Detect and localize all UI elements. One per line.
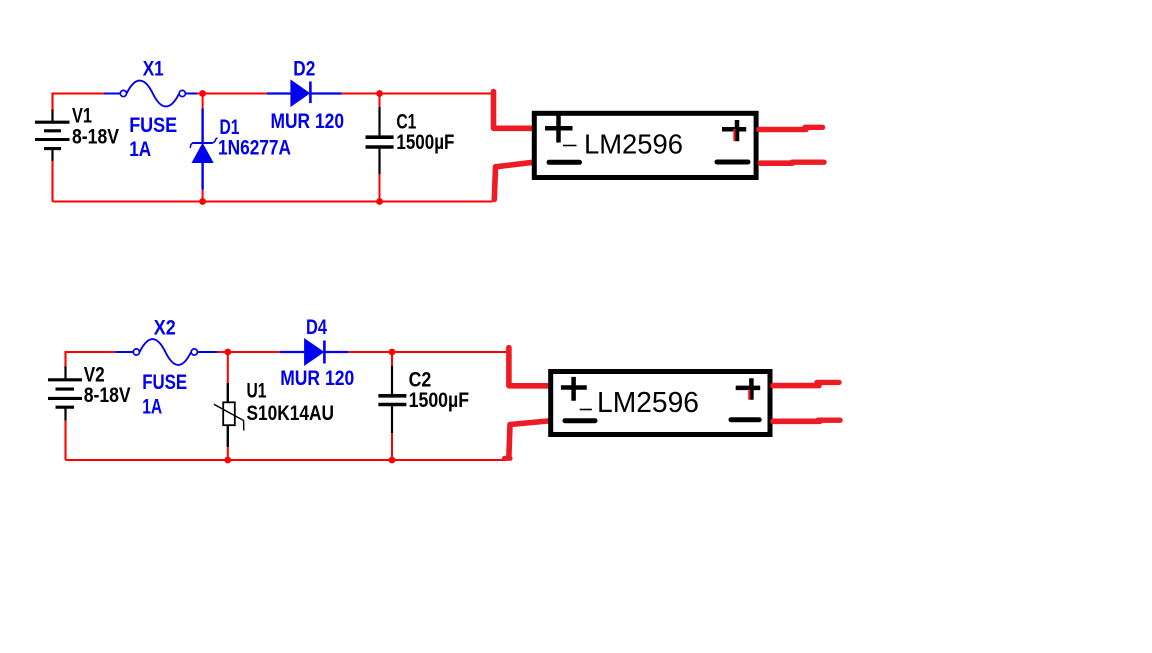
plus (left input, bottom box) xyxy=(561,377,587,401)
svg-text:D4: D4 xyxy=(306,316,327,339)
thick wire: bottom-left input to LM2596 (top) xyxy=(494,162,533,199)
thick wire: bottom-right output of LM2596 (bottom) xyxy=(773,418,820,424)
node A (fuse/D1 junction) xyxy=(199,90,206,97)
wire: left rail below battery xyxy=(51,161,53,202)
capacitor C1 xyxy=(366,92,394,202)
battery V2 xyxy=(48,366,82,420)
wire: bottom rail (bottom circuit) xyxy=(66,459,508,461)
thick wire: top-left input to LM2596 (top) xyxy=(494,92,534,129)
node (D1 bottom junction) xyxy=(199,198,206,205)
plus (right output, top box) xyxy=(722,120,746,141)
op-amp module U-bottom LM2596 box xyxy=(551,372,770,435)
thick wire: top-left input to LM2596 (bottom) xyxy=(509,348,548,386)
wire: left rail below battery (bottom circuit) xyxy=(64,420,66,461)
svg-text:MUR 120: MUR 120 xyxy=(271,110,345,133)
svg-text:8-18V: 8-18V xyxy=(84,384,131,407)
svg-text:MUR 120: MUR 120 xyxy=(280,367,354,390)
wire: U1 branch upper red xyxy=(227,350,229,384)
svg-text:LM2596: LM2596 xyxy=(597,387,699,419)
node (C1 bottom junction) xyxy=(376,198,383,205)
wire: U1 branch lower red xyxy=(227,447,229,460)
svg-text:X2: X2 xyxy=(154,316,176,339)
thick wire: top-right output of LM2596 (bottom) xyxy=(773,383,819,389)
wire: top rail right (D2 cathode to thick lead) xyxy=(342,92,493,94)
minus (left input, bottom box) xyxy=(565,418,595,423)
svg-text:1N6277A: 1N6277A xyxy=(218,137,291,160)
plus (left input, top box) xyxy=(545,116,573,143)
minus (right output, top box) xyxy=(717,160,748,165)
wire: bottom rail xyxy=(53,200,493,202)
thick wire: top-right output of LM2596 (top) xyxy=(759,127,806,133)
underscore mark (bottom box) xyxy=(580,409,592,411)
diode D2 xyxy=(267,80,342,106)
svg-text:1500µF: 1500µF xyxy=(409,389,470,412)
minus (right output, bottom box) xyxy=(731,417,759,422)
svg-text:X1: X1 xyxy=(143,58,164,81)
op-amp module U-top LM2596 box xyxy=(534,113,756,177)
svg-text:1A: 1A xyxy=(129,138,151,161)
svg-text:D2: D2 xyxy=(293,57,315,80)
plus (right output, bottom box) xyxy=(736,378,761,399)
node (C1 top junction) xyxy=(376,90,383,97)
node (C2 top junction) xyxy=(389,349,396,356)
wire: top rail middle (fuse out to D4) xyxy=(217,351,280,353)
junction blob (thick wire to bottom rail, bottom circuit) xyxy=(505,456,511,461)
wire: top rail right (D4 to thick lead) xyxy=(348,351,507,353)
wire: top rail left segment (battery to fuse, bottom circuit) xyxy=(66,352,116,367)
wire: top rail left segment (battery to fuse) xyxy=(53,94,105,111)
varistor U1 xyxy=(214,383,244,447)
red tick over right plus (top box) xyxy=(733,129,735,141)
svg-text:S10K14AU: S10K14AU xyxy=(247,402,335,425)
svg-text:1A: 1A xyxy=(142,395,162,418)
underscore mark (top box) xyxy=(563,145,577,147)
red tick over right plus (bottom box) xyxy=(748,390,750,400)
svg-text:8-18V: 8-18V xyxy=(72,126,119,149)
node (C2 bottom junction) xyxy=(389,457,396,464)
svg-text:C2: C2 xyxy=(409,368,432,391)
thick wire: bottom-right output of LM2596 (top) xyxy=(761,160,793,166)
svg-text:1500µF: 1500µF xyxy=(396,131,454,154)
wire: D1 branch lower red xyxy=(202,190,204,202)
diode D1 (TVS) xyxy=(190,109,217,190)
svg-text:LM2596: LM2596 xyxy=(584,128,683,159)
capacitor C2 xyxy=(378,350,406,460)
wire: D1 branch upper red xyxy=(202,92,204,109)
fuse X1 xyxy=(104,81,197,107)
svg-text:U1: U1 xyxy=(247,379,267,402)
wire: top rail middle (fuse out to D2 anode) xyxy=(197,92,267,94)
node (U1 bottom junction) xyxy=(224,457,231,464)
svg-text:V1: V1 xyxy=(72,105,92,128)
svg-text:FUSE: FUSE xyxy=(129,114,177,137)
diode D4 xyxy=(280,339,348,365)
minus (left input, top box) xyxy=(549,160,580,165)
node B (fuse/U1 junction) xyxy=(224,349,231,356)
svg-text:FUSE: FUSE xyxy=(142,371,187,394)
battery V1 xyxy=(35,110,70,162)
fuse X2 xyxy=(116,339,218,365)
thick wire: bottom-left input to LM2596 (bottom) xyxy=(509,421,548,456)
